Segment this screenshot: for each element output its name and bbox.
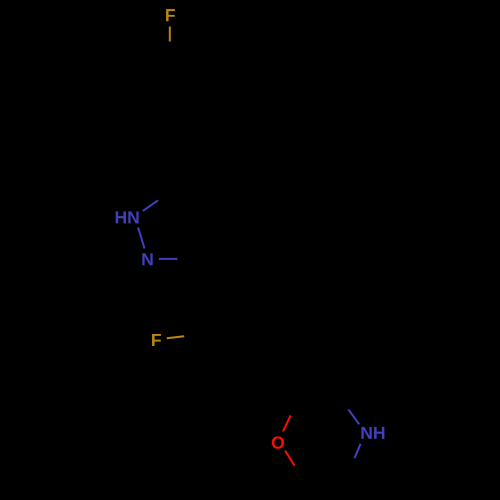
- morpholine N4-C3 half-bond (blue): [348, 409, 359, 424]
- fluorine F1 label: [166, 9, 175, 21]
- morpholine O1-C6 half-bond (red): [285, 451, 294, 466]
- pyrazole N1 label HN: [116, 211, 139, 223]
- morpholine O1-C2 half-bond (red): [283, 415, 291, 431]
- fluorine F1 half-bond (gold, to top phenyl C1'): [169, 27, 171, 42]
- fluorine F2 half-bond (gold, to lower phenyl): [167, 336, 185, 338]
- morpholine N4-C5 half-bond (blue): [355, 444, 361, 458]
- pyrazole N1-N2 bond (blue): [138, 228, 144, 249]
- pyrazole bonds C5-C4 and C4-C3: [170, 189, 207, 260]
- bond lower phenyl to morpholine C2: [271, 361, 297, 403]
- fluorine F2 label: [152, 334, 161, 346]
- pyrazole N2-C3 half-bond (blue): [159, 258, 177, 260]
- pyrazole N2 label: [142, 253, 152, 265]
- bond pyrazole C3 to lower phenyl ipso carbon: [193, 260, 213, 297]
- top 4-fluorophenyl benzene ring: [132, 59, 208, 147]
- bond top phenyl C4' to pyrazole C5: [169, 147, 171, 189]
- pyrazole N1-C5 half-bond (blue): [143, 200, 158, 211]
- morpholine carbon-carbon bonds C2-C3 and C5-C6: [297, 399, 345, 478]
- morpholine N4 label NH: [361, 427, 384, 439]
- lower 2-fluorophenyl benzene ring: [200, 286, 286, 369]
- morpholine O1 label: [272, 436, 284, 448]
- carbon skeleton bonds (drawn black on black background, invisible as in reference): [132, 59, 345, 478]
